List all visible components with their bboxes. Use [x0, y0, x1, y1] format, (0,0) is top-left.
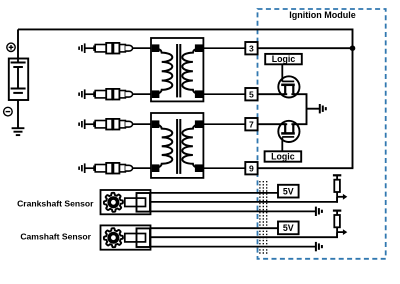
coil T2 secondary winding	[182, 124, 198, 168]
battery B1	[9, 59, 28, 101]
coil T1 terminal d	[195, 90, 203, 98]
crankshaft sensor reluctor wheel	[104, 193, 123, 212]
wire cam signal turn up	[336, 232, 338, 237]
signal arrow into module for R2	[337, 231, 343, 233]
svg-text:5V: 5V	[283, 186, 294, 196]
wire coil to pin row 3	[202, 123, 246, 125]
resistor R1	[334, 180, 340, 192]
wire coil to pin row 1	[202, 47, 246, 49]
wire	[336, 192, 338, 203]
coil T2 terminal d	[195, 164, 203, 172]
camshaft sensor connector	[137, 228, 151, 247]
wire	[336, 175, 338, 179]
coil T1 primary winding	[156, 48, 172, 94]
module pin terminal 3	[245, 42, 257, 54]
wire coil to pin row 4	[202, 167, 246, 169]
coil T2 core	[176, 119, 178, 174]
ignition coil T1 box	[151, 38, 203, 101]
logic block U2	[265, 151, 302, 161]
camshaft sensor reluctor wheel	[104, 228, 123, 247]
wire crank signal turn up	[336, 197, 338, 202]
wire coil to pin row 2	[202, 93, 246, 95]
signal arrow into module for R1	[337, 196, 343, 198]
wire pin3 to junction	[258, 47, 354, 49]
transistor Q1 (igniter MOSFET)	[278, 76, 299, 97]
wire	[336, 227, 338, 238]
wire source node to ground	[307, 108, 320, 110]
5V regulator box 1	[278, 185, 299, 198]
coil T1 terminal a	[152, 44, 160, 52]
spark plug 1	[78, 47, 80, 50]
wire cam 5V supply	[150, 227, 278, 229]
camshaft sensor body	[101, 225, 151, 249]
ground symbol GND crank	[315, 207, 317, 216]
wire U2 gate	[281, 138, 283, 152]
wire battery top lead	[17, 29, 19, 62]
svg-text:5V: 5V	[283, 223, 294, 233]
wire coil left row 1	[132, 47, 152, 49]
junction dot on supply rail	[350, 45, 356, 51]
ground symbol battery	[12, 127, 25, 129]
spark plug 3	[78, 123, 80, 126]
wire coil left row 3	[132, 123, 152, 125]
ground symbol GND transistors	[319, 104, 321, 113]
svg-text:Logic: Logic	[272, 54, 296, 64]
connector boundary dotted line 1	[259, 181, 261, 254]
wire pin7 to Q2 drain	[258, 123, 286, 125]
crankshaft sensor body	[101, 190, 151, 214]
label Crankshaft Sensor	[17, 198, 94, 208]
svg-text:3: 3	[249, 43, 254, 53]
svg-text:7: 7	[249, 119, 254, 129]
svg-text:Ignition Module: Ignition Module	[289, 10, 356, 20]
transistor Q2 (igniter MOSFET)	[278, 121, 299, 142]
5V supply tap bar for R1	[333, 174, 341, 176]
module pin terminal 7	[245, 118, 257, 130]
svg-text:Camshaft Sensor: Camshaft Sensor	[20, 232, 91, 242]
connector boundary dotted line 3	[266, 181, 268, 254]
wire coil left row 4	[132, 167, 152, 169]
wire cam ground	[150, 246, 315, 248]
coil T2 terminal c	[195, 120, 203, 128]
wire crank ground	[150, 210, 315, 212]
resistor R2	[334, 215, 340, 227]
wire battery bottom lead	[17, 93, 19, 128]
wire battery positive top rail	[18, 28, 353, 30]
wire crank signal	[146, 201, 339, 203]
coil T1 core	[176, 44, 178, 97]
spark plug 2	[78, 93, 80, 96]
battery positive terminal mark	[7, 43, 15, 51]
5V regulator box 2	[278, 222, 299, 235]
wire U1 gate	[281, 64, 283, 81]
spark plug 4	[78, 167, 80, 170]
crankshaft sensor pickup element	[125, 198, 146, 206]
5V supply tap bar for R2	[333, 210, 341, 212]
label Camshaft Sensor	[20, 232, 91, 242]
label Ignition Module	[289, 10, 356, 20]
wire Q1 source	[293, 94, 307, 124]
module pin terminal 5	[245, 88, 257, 100]
wire cam signal	[146, 236, 339, 238]
svg-text:Crankshaft Sensor: Crankshaft Sensor	[17, 198, 94, 208]
wire coil left row 2	[132, 93, 152, 95]
coil T1 terminal b	[152, 90, 160, 98]
camshaft sensor pickup element	[125, 234, 146, 242]
svg-text:Logic: Logic	[271, 151, 295, 161]
ignition coil T2 box	[151, 113, 203, 178]
connector boundary dotted line 2	[262, 181, 264, 254]
coil T2 terminal b	[152, 164, 160, 172]
wire	[336, 211, 338, 215]
module pin terminal 9	[245, 162, 257, 174]
svg-text:5: 5	[249, 89, 254, 99]
ignition module boundary (dashed box)	[258, 9, 386, 259]
battery negative terminal mark	[4, 107, 13, 116]
svg-text:9: 9	[249, 163, 254, 173]
wire pin5 to Q1 drain	[258, 93, 286, 95]
wire crank 5V supply	[150, 192, 278, 194]
coil T2 primary winding	[156, 124, 172, 168]
wire supply rail down right side	[352, 48, 354, 168]
wire rail drop to junction	[352, 29, 354, 49]
wire pin9 to supply rail	[258, 167, 354, 169]
ground symbol GND cam	[315, 242, 317, 251]
logic block U1	[265, 54, 302, 64]
coil T1 terminal c	[195, 44, 203, 52]
coil T2 terminal a	[152, 120, 160, 128]
crankshaft sensor connector	[137, 193, 151, 212]
coil T1 secondary winding	[182, 48, 198, 94]
